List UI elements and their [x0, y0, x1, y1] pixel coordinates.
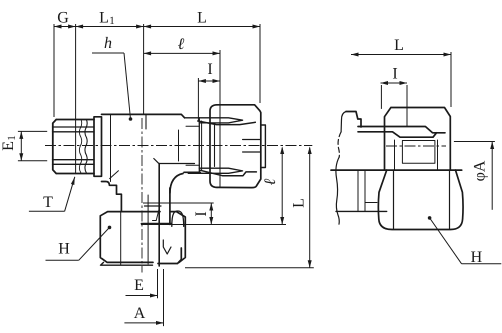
- svg-text:E: E: [134, 277, 144, 294]
- svg-text:I: I: [193, 211, 210, 216]
- svg-text:1: 1: [109, 15, 115, 27]
- svg-text:L: L: [99, 10, 109, 27]
- svg-text:L: L: [290, 198, 307, 208]
- svg-text:H: H: [471, 249, 483, 266]
- svg-text:E: E: [0, 141, 17, 151]
- svg-text:I: I: [392, 66, 397, 83]
- svg-text:1: 1: [6, 135, 18, 141]
- svg-text:G: G: [57, 10, 69, 27]
- svg-text:A: A: [134, 305, 146, 322]
- svg-text:φA: φA: [472, 160, 489, 181]
- svg-text:T: T: [43, 194, 53, 211]
- svg-text:h: h: [104, 35, 112, 52]
- svg-text:H: H: [58, 241, 70, 258]
- svg-text:I: I: [207, 61, 212, 78]
- svg-text:L: L: [197, 10, 207, 27]
- svg-text:ℓ: ℓ: [262, 178, 279, 185]
- svg-text:ℓ: ℓ: [178, 36, 185, 53]
- svg-text:L: L: [394, 37, 404, 54]
